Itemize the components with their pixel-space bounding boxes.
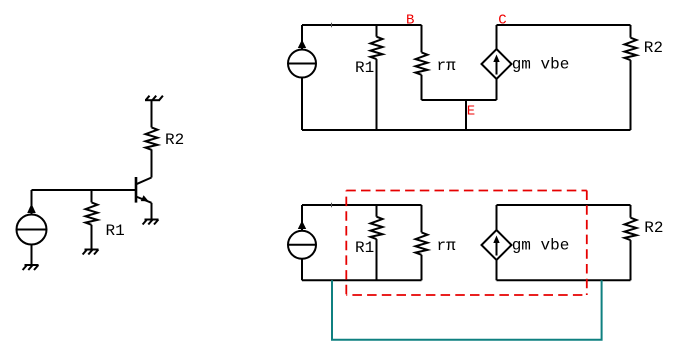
svg-text:C: C <box>498 12 506 28</box>
teal wire connecting emitter nets <box>332 280 602 340</box>
resistor R1 (top-right) <box>371 25 383 130</box>
top-right circuit: top rail C segment <box>497 24 631 26</box>
current source I3 (bottom-right) <box>288 205 316 280</box>
resistor R2 (left circuit) <box>146 100 158 150</box>
bottom-right circuit: bottom rail left segment <box>302 279 422 281</box>
svg-text:R2: R2 <box>644 219 663 237</box>
svg-text:R1: R1 <box>355 59 374 77</box>
wire node E horizontal <box>422 99 497 101</box>
transistor Q1 (NPN) <box>136 149 152 219</box>
resistor R2 (top-right) <box>625 25 637 130</box>
svg-text:R2: R2 <box>165 131 184 149</box>
power symbol VCC above R2 <box>145 96 163 101</box>
bottom-right circuit: bottom rail right segment <box>497 279 631 281</box>
svg-text:R1: R1 <box>355 239 374 257</box>
wire junction tick on top rail <box>331 23 333 27</box>
svg-text:rπ: rπ <box>437 237 457 255</box>
wire base wire left circuit <box>32 189 137 191</box>
resistor rpi (top-right) <box>416 25 428 100</box>
svg-text:gm vbe: gm vbe <box>512 56 570 74</box>
svg-text:gm vbe: gm vbe <box>512 237 570 255</box>
svg-text:R1: R1 <box>106 222 125 240</box>
wire node E drop to rail <box>465 100 467 130</box>
resistor R1 (left circuit) <box>86 190 98 250</box>
ground below R1 (left circuit) <box>83 250 99 255</box>
dependent source gm vbe (bottom-right) <box>482 205 512 280</box>
svg-text:rπ: rπ <box>437 57 457 75</box>
svg-text:B: B <box>406 12 414 28</box>
current source I2 (top-right) <box>288 25 316 130</box>
current source I1 (left circuit) <box>17 190 47 265</box>
wire junction tick on lower top rail <box>331 203 333 207</box>
svg-text:E: E <box>467 104 475 120</box>
red dashed box (transistor model boundary) <box>346 191 587 296</box>
top-right circuit: top rail B segment <box>302 24 422 26</box>
bottom-right circuit: top rail left segment <box>302 204 422 206</box>
resistor R2 (bottom-right) <box>625 205 637 280</box>
resistor R1 (bottom-right) <box>371 205 383 280</box>
top-right circuit: bottom rail <box>302 129 631 131</box>
bottom-right circuit: top rail right segment <box>497 204 631 206</box>
ground below I1 <box>23 265 39 270</box>
ground below emitter Q1 <box>143 220 159 225</box>
svg-text:R2: R2 <box>644 39 663 57</box>
resistor rpi (bottom-right) <box>416 205 428 280</box>
dependent source gm vbe (top-right) <box>482 25 512 100</box>
